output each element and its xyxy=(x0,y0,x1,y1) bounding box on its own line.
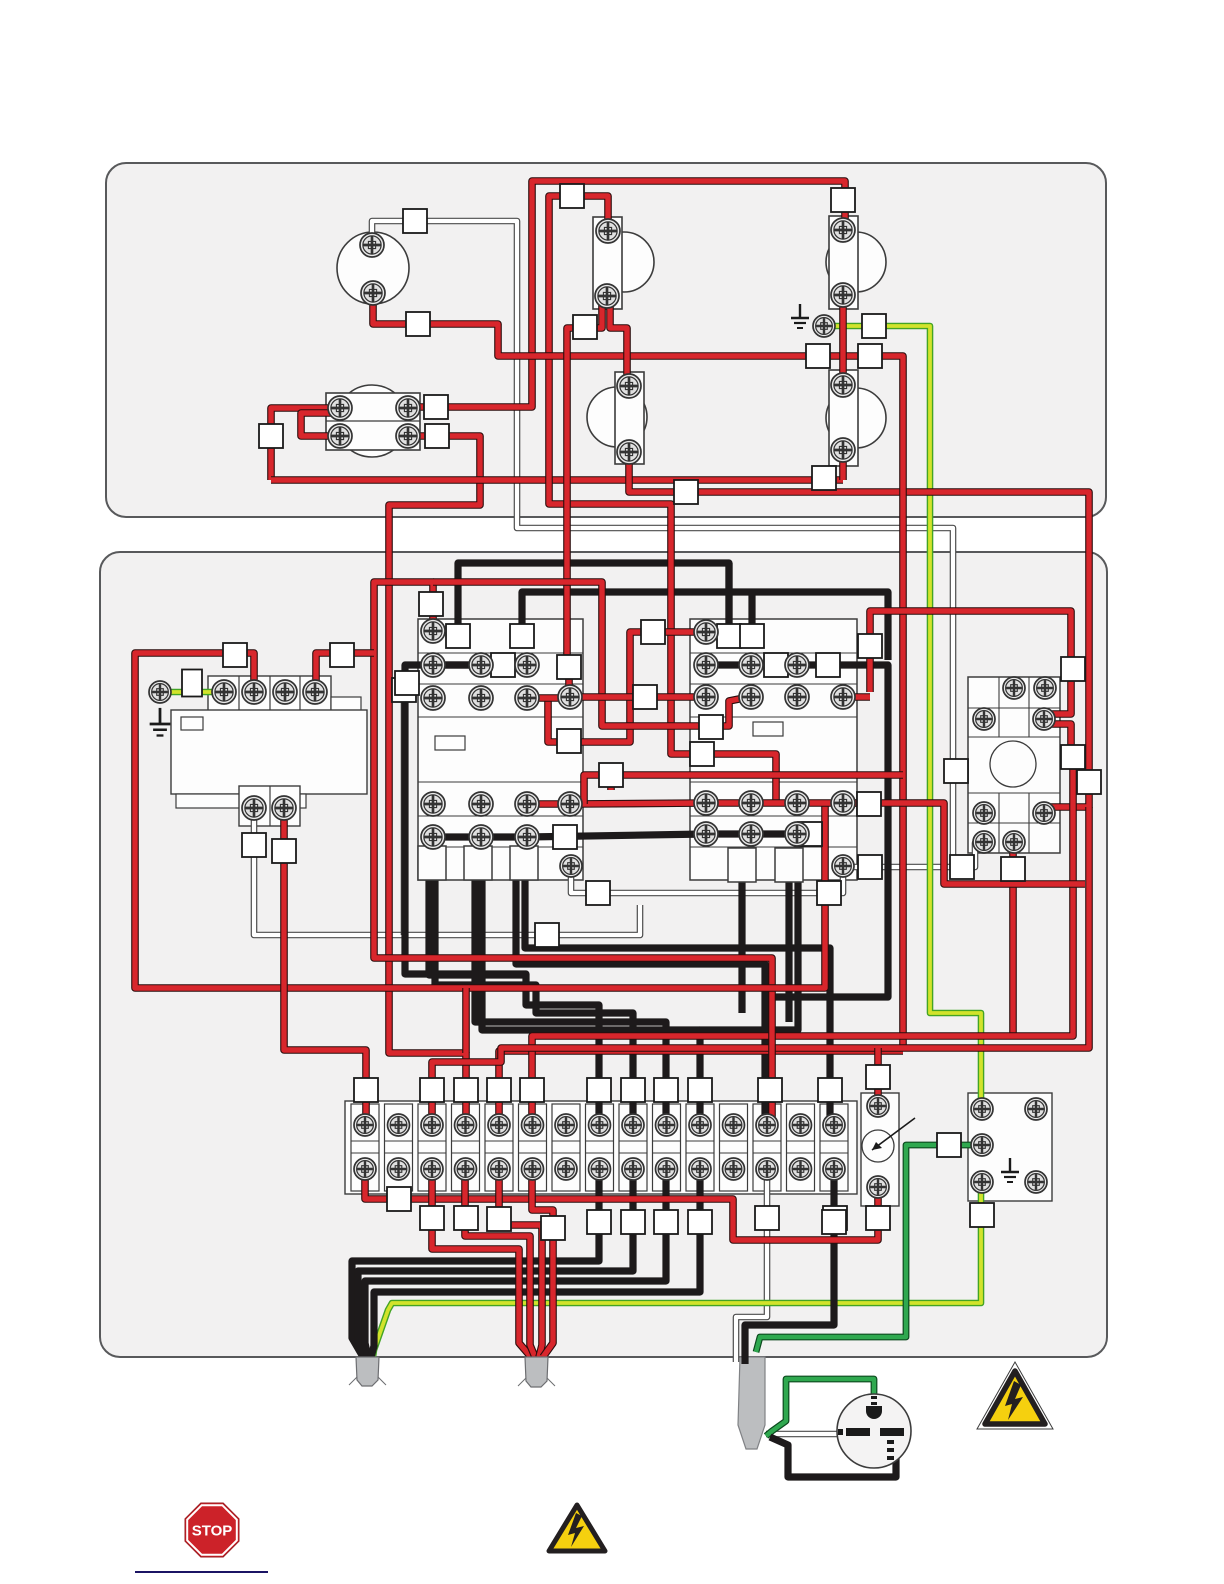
screws contactor C2 row5 xyxy=(694,822,718,846)
connector sleeve X8 at 547,935 xyxy=(535,923,559,947)
wire red burner to element E4 top and x903 feeder xyxy=(373,300,903,1051)
svg-text:STOP: STOP xyxy=(192,1523,233,1540)
connector sleeve X60 at 599,1090 xyxy=(587,1078,611,1102)
wire white terminal13 to cable xyxy=(736,1172,767,1362)
bottom panel enclosure xyxy=(100,552,1107,1357)
screw contactor C1 neutral xyxy=(560,855,582,877)
connector sleeve X54 at 878,1218 xyxy=(866,1206,890,1230)
connector sleeve X62 at 666,1090 xyxy=(654,1078,678,1102)
oven element E3 body xyxy=(587,387,647,447)
screws thermostat T1 xyxy=(867,1095,889,1117)
wire red timer left feed / y988 bus xyxy=(135,653,825,988)
wire red junction jumper xyxy=(301,413,340,436)
wire red element E3 bottom drop xyxy=(629,458,1089,813)
wire black top link1 xyxy=(458,563,729,642)
connector sleeve X71 at 599,1222 xyxy=(587,1210,611,1234)
wire red x903 branch contactor2 xyxy=(870,611,903,692)
surface burner SB1 body xyxy=(337,232,409,304)
oven element E4 body xyxy=(826,388,886,448)
connector sleeve X68 at 466,1218 xyxy=(454,1206,478,1230)
wire red contactor1 row4 xyxy=(527,803,857,804)
wire black clamp1a xyxy=(429,874,526,975)
screws terminal strip TB1-TB15 xyxy=(354,1114,376,1136)
wire black clamp3a to TB13 xyxy=(516,874,765,1125)
wire black plug xyxy=(770,1437,896,1477)
wire red element E1 bottom right to E3 top xyxy=(610,300,627,380)
wire white neutral main (burner to switch) xyxy=(372,221,957,862)
screws contactor C2 row1-2 xyxy=(694,620,718,644)
connector sleeve X66 at 399,1199 xyxy=(387,1187,411,1211)
connector sleeve X49 at 1073,669 xyxy=(1061,657,1085,681)
connector sleeve X51 at 1089,782 xyxy=(1077,770,1101,794)
wire red contactor1 row3 bus xyxy=(527,694,570,702)
wire green plate to cable xyxy=(756,1145,982,1352)
wire black TB9 to cable xyxy=(358,1172,633,1357)
wire black contactor2 row2 bus east xyxy=(706,665,888,1020)
connector sleeve X74 at 700,1222 xyxy=(688,1210,712,1234)
wire black TB11 to cable xyxy=(371,1172,700,1357)
connector sleeve X45 at 869,804 xyxy=(857,792,881,816)
wire green-yellow timer jumper xyxy=(160,689,224,696)
screws element E2 xyxy=(831,218,855,242)
connector sleeve X10 at 874,326 xyxy=(862,314,886,338)
connector sleeve GY jumper xyxy=(182,670,202,697)
screws timer top row xyxy=(212,680,236,704)
connector sleeve X24 at 870,356 xyxy=(858,344,882,368)
connector sleeve X75 at 834,1222 xyxy=(822,1210,846,1234)
connector sleeve X56 at 432,1090 xyxy=(420,1078,444,1102)
wire red bus1 to TB6 xyxy=(532,757,1073,1125)
wire red x903 east branch y611 xyxy=(903,611,1071,719)
wire red y988 to TB4 drop xyxy=(462,988,470,1053)
ground screw top panel xyxy=(813,315,835,337)
wire black row5 bus to TB11 xyxy=(433,834,798,1125)
connector sleeve X5 at 598,893 xyxy=(586,881,610,905)
connector sleeve X48 at 870,646 xyxy=(858,634,882,658)
connector sleeve X67 at 432,1218 xyxy=(420,1206,444,1230)
screws contactor C1 row1-2 xyxy=(421,619,445,643)
wire green-yellow main ground xyxy=(824,326,981,1110)
connector sleeve X41 at 702,754 xyxy=(690,742,714,766)
connector sleeve X27 at 342,655 xyxy=(330,643,354,667)
connector sleeve X43 at 569,741 xyxy=(557,729,581,753)
wire red row3screw4 to contactor2 row3 xyxy=(570,693,700,701)
connector sleeve X9 at 404,690 xyxy=(392,678,416,702)
wire white neutral contactor2 to box xyxy=(843,864,962,871)
wire red element E4 bottom xyxy=(839,456,847,480)
top panel enclosure xyxy=(106,163,1106,517)
connector sleeve X33 at 752,636 xyxy=(740,624,764,648)
cable sheath left xyxy=(356,1357,379,1386)
screws contactor C1 row4 xyxy=(421,792,445,816)
connector sleeve X47 at 810,834 xyxy=(798,822,822,846)
wire green-yellow plate to cable xyxy=(373,1180,981,1357)
wire red link row3screw3 to contactor2 row1 xyxy=(548,632,700,742)
power plug P1 xyxy=(837,1394,911,1468)
infinite switch S1 body xyxy=(968,677,1060,853)
wire red contactor2 row4 east to bus2 xyxy=(843,803,1085,884)
connector sleeve X22 at 585,327 xyxy=(573,315,597,339)
ground screw timer xyxy=(149,681,171,703)
screws ground plate GP1 xyxy=(971,1098,993,1120)
connector sleeve X61 at 633,1090 xyxy=(621,1078,645,1102)
wire red junction loop top xyxy=(271,408,340,480)
connector sleeve X69 at 499,1219 xyxy=(487,1207,511,1231)
connector sleeve X30 at 458,636 xyxy=(446,624,470,648)
wire black clamp1b to TB9 xyxy=(435,874,633,1125)
wire red thermostat top feed xyxy=(874,1048,882,1100)
screw contactor C2 neutral xyxy=(832,855,854,877)
oven element E2 body xyxy=(826,232,886,292)
connector sleeve X59 at 532,1090 xyxy=(520,1078,544,1102)
connector sleeve X28 at 284,851 xyxy=(272,839,296,863)
timer K1 terminal row xyxy=(208,676,331,717)
connector sleeve X50 at 1073,757 xyxy=(1061,745,1085,769)
wire white neutral jog to switch screw xyxy=(953,843,983,867)
wire red contactor1 row1 to TB13 xyxy=(374,582,772,1125)
screws contactor C2 row4 xyxy=(694,791,718,815)
screws junction J1 xyxy=(328,396,352,420)
thermostat T1 pointer xyxy=(872,1118,915,1150)
wire red TB1 bottom to thermostat xyxy=(365,1172,878,1240)
wire red timer out to TB1 xyxy=(284,812,366,1125)
wire red junction BR to panel exit xyxy=(389,436,480,1125)
connector sleeve X17 at 437,436 xyxy=(425,424,449,448)
connector sleeve X18 at 418,324 xyxy=(406,312,430,336)
wire black clamp3b to TB15 xyxy=(525,874,830,1125)
connector sleeve X39 at 645,697 xyxy=(633,685,657,709)
connector sleeve X31 at 522,636 xyxy=(510,624,534,648)
timer K1 bottom terminals xyxy=(239,786,300,826)
connector sleeve X64 at 770,1090 xyxy=(758,1078,782,1102)
contactor wire clamps xyxy=(418,846,446,880)
wire red element E2-E4 vertical xyxy=(839,300,847,380)
wire black top link2 stub xyxy=(748,592,755,642)
connector sleeve X12 at 949,1145 xyxy=(937,1133,961,1157)
connector sleeve X73 at 666,1222 xyxy=(654,1210,678,1234)
connector sleeve X6 at 829,893 xyxy=(817,881,841,905)
connector sleeve X63 at 700,1090 xyxy=(688,1078,712,1102)
screws contactor C1 row5 xyxy=(421,825,445,849)
connector sleeve X65 at 830,1090 xyxy=(818,1078,842,1102)
screws contactor C1 row3 xyxy=(421,686,445,710)
connector sleeve X4 at 870,867 xyxy=(858,855,882,879)
wire white neutral contactor link xyxy=(571,866,843,893)
wire green plug xyxy=(766,1379,874,1436)
connector sleeve X57 at 466,1090 xyxy=(454,1078,478,1102)
wire red y582 east to contactor2 row3screw2 xyxy=(433,582,749,726)
connector sleeve X36 at 828,665 xyxy=(816,653,840,677)
wire black contactor1 row2 bus xyxy=(433,661,527,668)
warning triangle high voltage bottom xyxy=(549,1505,605,1551)
connector sleeve X55 at 366,1090 xyxy=(354,1078,378,1102)
connector sleeve X11 at 982,1215 xyxy=(970,1203,994,1227)
wire red switch screw2 drop long xyxy=(1009,848,1017,1036)
ground symbol timer xyxy=(150,708,171,736)
wire black clamp2a to TB10 xyxy=(475,874,666,1125)
wire red TB4 below xyxy=(465,1172,535,1357)
wire red main bus y480 (junction to element E4) xyxy=(271,476,843,484)
wire red row4 vert tie xyxy=(584,775,611,804)
screws element E4 xyxy=(831,373,855,397)
connector sleeve X32 at 729,636 xyxy=(717,624,741,648)
connector sleeve X37 at 407,683 xyxy=(395,671,419,695)
ground symbol top panel xyxy=(791,304,809,328)
wire red timer right horizontal xyxy=(316,653,374,688)
footer rule xyxy=(135,1571,268,1573)
screws contactor C2 row3 xyxy=(694,685,718,709)
screws infinite switch S1 xyxy=(1003,677,1025,699)
connector sleeve X7 at 254,845 xyxy=(242,833,266,857)
connector sleeve X35 at 776,665 xyxy=(764,653,788,677)
connector sleeve X19 at 572,196 xyxy=(560,184,584,208)
wire red contactor2 row3 right xyxy=(843,693,870,701)
cable sheath mid xyxy=(525,1357,548,1387)
connector sleeve X15 at 271,436 xyxy=(259,424,283,448)
wire black clamp2b xyxy=(482,874,700,1030)
timer K1 body xyxy=(171,710,367,794)
connector sleeve X58 at 499,1090 xyxy=(487,1078,511,1102)
wire white plug xyxy=(766,1431,848,1438)
connector sleeve X53 at 878,1077 xyxy=(866,1065,890,1089)
oven element E1 body xyxy=(594,232,654,292)
ground symbol plate xyxy=(1001,1158,1019,1182)
wire red x903 to TB5 xyxy=(499,1051,903,1125)
ground plate GP1 body xyxy=(968,1093,1052,1201)
contactor C2 body xyxy=(690,619,857,880)
wire black contactor2 clamp b xyxy=(785,878,792,1022)
wire red x903 branch row4 xyxy=(611,775,903,790)
wire red TB5 below xyxy=(499,1172,542,1357)
connector sleeve X20 at 843,200 xyxy=(831,188,855,212)
connector sleeve X42 at 711,727 xyxy=(699,715,723,739)
connector sleeve X26 at 235,655 xyxy=(223,643,247,667)
wire red junction TR to element E2 xyxy=(408,181,845,407)
connector sleeve X38 at 569,667 xyxy=(557,655,581,679)
connector sleeve X29 at 431,604 xyxy=(419,592,443,616)
wire black contactor2 clamp a xyxy=(738,878,745,1013)
connector sleeve X34 at 503,665 xyxy=(491,653,515,677)
contactor C1 body xyxy=(418,619,583,880)
connector sleeve X14 at 835,1218 xyxy=(823,1206,847,1230)
wire black TB10 to cable xyxy=(365,1172,666,1357)
connector sleeve X3 at 962,867 xyxy=(950,855,974,879)
connector sleeve X25 at 824,478 xyxy=(812,466,836,490)
warning triangle high voltage right xyxy=(977,1362,1053,1429)
connector sleeve X44 at 611,775 xyxy=(599,763,623,787)
wire red TB3 below xyxy=(432,1172,531,1357)
wire black top link2 xyxy=(522,592,888,660)
connector sleeve X23 at 818,356 xyxy=(806,344,830,368)
wire red element E1 feed xyxy=(549,196,776,800)
connector sleeve X2 at 956,771 xyxy=(944,759,968,783)
wire red element E1 bottom left to contactor1 xyxy=(567,300,602,692)
screws element E3 xyxy=(617,374,641,398)
connector sleeve X16 at 436,407 xyxy=(424,395,448,419)
thermostat T1 body xyxy=(861,1093,899,1206)
wire black top link1 stub xyxy=(725,563,732,630)
connector sleeve X21 at 686,492 xyxy=(674,480,698,504)
wire red y611 lower stub xyxy=(1044,724,1071,757)
wire white timer tap up xyxy=(401,690,408,935)
wire black TB8 to cable xyxy=(352,1172,599,1357)
connector sleeve X70 at 553,1228 xyxy=(541,1216,565,1240)
connector sleeve X1 at 415,221 xyxy=(403,209,427,233)
wire black contactor1 row2 west leg xyxy=(405,665,599,1125)
wire white timer tap xyxy=(254,812,640,935)
screws element E1 xyxy=(596,219,620,243)
connector sleeve X46 at 565,837 xyxy=(553,825,577,849)
stop sign xyxy=(185,1503,239,1557)
connector sleeve X40 at 653,632 xyxy=(641,620,665,644)
screws timer bottom xyxy=(242,796,266,820)
connector sleeve X13 at 767,1218 xyxy=(755,1206,779,1230)
wire red bus2 to TB3 xyxy=(432,807,1089,1125)
wire red TB6 below xyxy=(532,1172,553,1357)
wire black TB15 to cable xyxy=(745,1172,834,1364)
connector sleeve X72 at 633,1222 xyxy=(621,1210,645,1234)
junction block J1 body xyxy=(336,385,408,457)
connector sleeve X52 at 1013,869 xyxy=(1001,857,1025,881)
terminal strip TB1 body xyxy=(345,1101,857,1194)
cable sheath to plug xyxy=(738,1357,765,1449)
screws burner SB1 xyxy=(360,233,384,257)
